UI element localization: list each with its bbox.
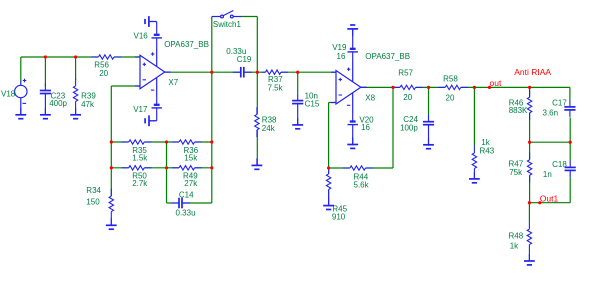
wire interstage (244, 71, 265, 73)
wire feedback row 1 (144, 141, 179, 143)
ground R38 (252, 158, 263, 169)
svg-text:C15: C15 (305, 100, 320, 109)
node fb4 (110, 166, 113, 169)
ground V16 (145, 16, 156, 27)
svg-text:R58: R58 (443, 75, 458, 84)
ground R48 (524, 254, 535, 265)
svg-text:C14: C14 (179, 190, 194, 199)
battery V16 (152, 35, 162, 38)
resistor R39 (73, 79, 77, 115)
svg-text:16: 16 (361, 123, 370, 132)
resistor R44 (343, 166, 373, 170)
svg-text:OPA637_BB: OPA637_BB (164, 40, 209, 49)
wire C17 top (569, 87, 571, 100)
ground C23 (40, 108, 51, 119)
wire X8 feedback column (328, 103, 330, 174)
wire switch top rail (241, 16, 258, 18)
svg-text:C19: C19 (237, 55, 252, 64)
resistor R49 (172, 166, 202, 170)
node R43 (473, 86, 476, 89)
wire feedback row 1 (111, 141, 128, 143)
svg-text:27k: 27k (184, 179, 198, 188)
svg-text:20: 20 (403, 93, 412, 102)
svg-text:1n: 1n (543, 170, 552, 179)
wire feedback row 2 (144, 167, 179, 169)
svg-text:75k: 75k (509, 168, 523, 177)
capacitor C23 (40, 84, 51, 115)
capacitor C24 (423, 115, 434, 146)
ground C24 (423, 138, 434, 149)
resistor R34 (109, 189, 113, 226)
wire feedback row 2 (111, 167, 128, 169)
wire left feedback column (110, 86, 112, 196)
svg-text:883K: 883K (509, 106, 528, 115)
node Out1 L (528, 201, 531, 204)
svg-text:V16: V16 (134, 32, 149, 41)
wire X8 inverting input (329, 102, 336, 104)
ground V17 (145, 115, 156, 126)
svg-text:OPA637_BB: OPA637_BB (365, 52, 410, 61)
svg-text:R34: R34 (86, 186, 101, 195)
wire mid rail (530, 141, 571, 143)
node fb5 (165, 166, 168, 169)
wire C14 right (182, 202, 212, 204)
node R46 top (528, 86, 531, 89)
wire X7 inverting input (111, 85, 140, 87)
node mid L (528, 141, 531, 144)
svg-text:47k: 47k (81, 100, 95, 109)
wire C14 left (167, 202, 180, 204)
svg-text:100p: 100p (400, 124, 418, 133)
wire right feedback column / switch riser (211, 17, 213, 204)
svg-text:1k: 1k (510, 242, 519, 251)
wire Out1 rail (529, 202, 570, 204)
wire V18 top (20, 57, 22, 82)
svg-text:R43: R43 (480, 147, 495, 156)
battery V19 (348, 49, 358, 52)
battery V17 (152, 105, 162, 108)
node A (44, 55, 47, 58)
wire X8 output rail (361, 86, 400, 88)
resistor R48 (527, 222, 531, 261)
svg-text:C24: C24 (403, 115, 418, 124)
wire R47 column (529, 175, 531, 202)
capacitor C15 (292, 94, 303, 125)
svg-text:910: 910 (332, 213, 346, 222)
svg-text:16: 16 (337, 52, 346, 61)
svg-text:20: 20 (99, 69, 108, 78)
node B (74, 55, 77, 58)
svg-text:15k: 15k (184, 153, 198, 162)
svg-text:C17: C17 (552, 99, 567, 108)
node Out1 flag (538, 201, 541, 204)
node X7 out (210, 71, 213, 74)
voltage source V18 (15, 81, 27, 115)
op-amp X8 (331, 62, 367, 114)
wire R47 column (529, 142, 531, 159)
node C19/R38 (256, 71, 259, 74)
wire R48 top (528, 203, 530, 222)
wire mid feedback column (166, 142, 168, 203)
resistor R50 (122, 166, 152, 170)
node C24 (427, 86, 430, 89)
svg-text:24k: 24k (262, 124, 276, 133)
capacitor C19 (233, 67, 252, 78)
resistor R43 (472, 146, 476, 179)
svg-text:Out1: Out1 (540, 193, 559, 203)
wire C24 branch (428, 87, 430, 115)
ground V20 (347, 138, 358, 149)
node fb6 (210, 166, 213, 169)
svg-text:X7: X7 (168, 78, 178, 87)
wire X7 V- pin to V17 (156, 98, 158, 105)
resistor R45 (326, 167, 330, 206)
svg-text:400p: 400p (49, 99, 67, 108)
resistor R57 (393, 85, 423, 89)
wire V16 to X7 V+ pin (156, 38, 158, 46)
svg-text:C18: C18 (552, 160, 567, 169)
node C15 (296, 71, 299, 74)
resistor R56 (91, 55, 121, 59)
ground R34 (106, 218, 117, 229)
wire V19 ground to battery (352, 29, 354, 49)
wire input top rail (21, 56, 99, 58)
wire C23 top (44, 57, 46, 86)
wire feedback riser (392, 87, 394, 168)
wire X7 output (165, 71, 241, 73)
wire V19 to X8 V+ pin (352, 52, 354, 62)
ground R39 (70, 108, 81, 119)
wire input top rail (114, 56, 140, 58)
svg-text:150: 150 (86, 198, 100, 207)
node X8 fb (391, 86, 394, 89)
capacitor C18 (565, 160, 576, 177)
wire R38 branch (256, 130, 258, 165)
svg-text:1.5k: 1.5k (132, 153, 148, 162)
node fb2 (165, 140, 168, 143)
wire C15 branch (297, 72, 299, 93)
svg-text:V18: V18 (1, 90, 16, 99)
svg-text:Switch1: Switch1 (213, 20, 242, 29)
svg-text:7.5k: 7.5k (268, 83, 284, 92)
wire X8 feedback column (328, 190, 330, 206)
wire feedback row 2 (195, 167, 212, 169)
node fb3 (210, 140, 213, 143)
wire R43 column (473, 87, 475, 146)
svg-text:2.7k: 2.7k (132, 179, 148, 188)
resistor R36 (172, 140, 202, 144)
resistor R38 (255, 107, 259, 137)
resistor R37 (262, 70, 288, 74)
svg-text:Anti RIAA: Anti RIAA (514, 67, 551, 77)
svg-text:5.6k: 5.6k (354, 181, 370, 190)
wire X8 V- pin to V20 (352, 113, 354, 122)
node mid R (569, 141, 572, 144)
svg-text:R48: R48 (509, 232, 524, 241)
resistor R58 (438, 85, 468, 89)
resistor R35 (122, 140, 152, 144)
wire R46 branch (529, 113, 531, 142)
svg-text:R57: R57 (398, 69, 413, 78)
svg-text:0.33u: 0.33u (176, 209, 196, 218)
ground V18 (15, 108, 26, 119)
svg-text:1k: 1k (481, 138, 490, 147)
ground R45 (323, 199, 334, 210)
ground V19 (347, 25, 358, 36)
resistor R46 (527, 90, 531, 120)
wire V16 negative to ground (156, 22, 158, 35)
wire X8 output rail (416, 86, 445, 88)
wire V17 positive to ground (156, 108, 158, 121)
op-amp X7 (135, 46, 171, 98)
svg-text:X8: X8 (365, 93, 375, 102)
switch Switch1 (212, 11, 241, 18)
node R44/R45 (327, 166, 330, 169)
wire C18 column upper (569, 118, 571, 161)
wire R44 row (366, 167, 393, 169)
wire interstage (281, 71, 336, 73)
capacitor C14 (171, 198, 190, 209)
svg-text:20: 20 (446, 93, 455, 102)
svg-text:out: out (490, 78, 502, 88)
wire V20 to ground (352, 125, 354, 145)
wire R38 branch (256, 72, 258, 114)
node fb1 (110, 140, 113, 143)
wire switch right riser (256, 17, 258, 73)
resistor R47 (527, 153, 531, 183)
wire R46 branch (529, 87, 531, 97)
wire C18 column lower (569, 178, 571, 203)
wire R44 row (329, 167, 350, 169)
wire feedback row 1 (195, 141, 212, 143)
svg-text:V17: V17 (133, 105, 148, 114)
battery V20 (348, 122, 358, 125)
ground R43 (469, 172, 480, 183)
wire X8 output rail (461, 86, 570, 88)
ground C15 (292, 118, 303, 129)
svg-text:3.6n: 3.6n (543, 109, 559, 118)
wire R39 top (75, 57, 77, 80)
node out (488, 86, 491, 89)
capacitor C17 (564, 100, 575, 117)
